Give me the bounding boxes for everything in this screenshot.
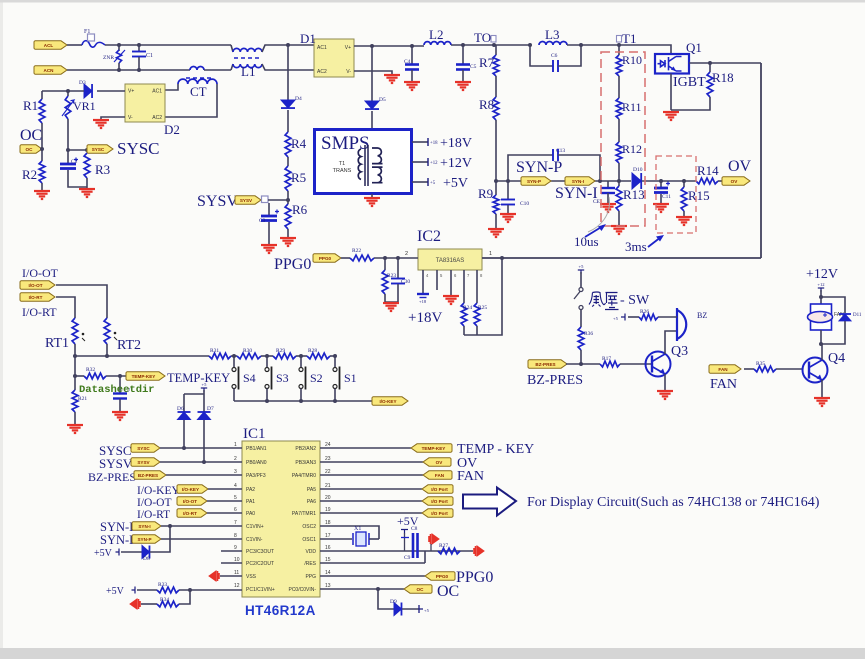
svg-text:R11: R11 [622, 100, 642, 114]
svg-text:24: 24 [325, 442, 331, 448]
wire Q4 emitter [821, 380, 823, 397]
wire CE upper lead [607, 181, 609, 188]
wire L1 top to D1 AC1 [262, 45, 315, 52]
svg-text:R31: R31 [210, 348, 219, 354]
transformer CT secondary winding [178, 79, 217, 84]
wire down to D9 [378, 589, 394, 609]
capacitor C30 [391, 279, 405, 284]
port FAN mid [709, 365, 741, 373]
wire +5 to R26 [628, 316, 639, 318]
svg-text:SYSV: SYSV [137, 460, 150, 465]
junction TO node [492, 43, 496, 47]
capacitor C3 [261, 210, 279, 221]
svg-text:R4: R4 [291, 136, 307, 151]
left page edge strip [0, 3, 3, 649]
svg-text:PPG0: PPG0 [274, 256, 311, 273]
thermistor RT2 [104, 318, 110, 344]
svg-text:BZ-PRES: BZ-PRES [535, 362, 555, 367]
svg-text:Datasheetdir: Datasheetdir [79, 384, 155, 396]
svg-text:C6: C6 [551, 53, 558, 59]
svg-text:IC1: IC1 [243, 426, 266, 442]
svg-text:SYN-I: SYN-I [555, 185, 598, 202]
wire SYSC node row [68, 149, 88, 151]
svg-text:I/O Port: I/O Port [431, 511, 448, 516]
wire R30 to R29 [261, 355, 273, 357]
bottom page edge strip [0, 648, 865, 659]
fan motor M1 [808, 304, 833, 330]
crystal X1 [353, 532, 369, 546]
wire R1 upper lead [41, 91, 43, 99]
junction D9 branch [376, 587, 380, 591]
svg-text:R34: R34 [160, 597, 169, 603]
junction D11 bottom [819, 342, 823, 346]
svg-text:PA6: PA6 [307, 499, 316, 505]
bridge rectifier D2 [125, 84, 165, 122]
svg-text:D8: D8 [143, 556, 150, 562]
svg-text:+18: +18 [430, 141, 438, 146]
wire D9 to +5 tick [402, 608, 419, 610]
switch S3 [265, 367, 272, 390]
leader curve 10us [588, 197, 609, 232]
wire key S2 top [300, 356, 302, 367]
buzzer BZ [677, 308, 686, 341]
wire R25 bottom lead [476, 326, 478, 335]
inductor L1 bottom winding [233, 64, 262, 68]
ground R21 [67, 425, 83, 433]
junction R18 top [708, 61, 712, 65]
resistor R5 [285, 166, 291, 191]
svg-text:+18: +18 [419, 299, 427, 304]
wire pin20 to IO port tag [320, 500, 422, 502]
svg-text:/RES: /RES [304, 561, 316, 567]
wire D8 to SYN-I [150, 526, 170, 552]
svg-text:FAN: FAN [435, 473, 445, 478]
capacitor C10 [501, 200, 515, 205]
svg-text:RT1: RT1 [45, 336, 69, 351]
wire arrow stub VDD [430, 544, 432, 551]
ground R13 [611, 226, 627, 234]
wire feedback to pin1 node [464, 258, 502, 335]
node marker SYSV [262, 196, 269, 203]
svg-text:R5: R5 [291, 170, 306, 185]
resistor R22 [350, 255, 374, 261]
port TEMP-KEY left-mid [126, 372, 165, 380]
wire C10 lower lead [507, 205, 509, 213]
junction D11 top [819, 295, 823, 299]
svg-text:SYSV: SYSV [240, 198, 253, 203]
svg-text:TEMP-KEY: TEMP-KEY [132, 374, 156, 379]
svg-text:C10: C10 [520, 201, 529, 207]
svg-text:TA8316AS: TA8316AS [436, 258, 465, 264]
svg-text:I/O-RT: I/O-RT [29, 295, 43, 300]
wire Q3 emitter [664, 374, 666, 390]
diode D10 [632, 173, 641, 189]
junction C11 branch [659, 179, 663, 183]
port TEMP-KEY right [411, 444, 452, 452]
svg-text:R21: R21 [78, 396, 87, 402]
svg-text:4: 4 [234, 483, 237, 489]
power arrow VSS [209, 571, 219, 581]
wire ACN rail to CT [67, 69, 190, 71]
port I/O Port b [422, 497, 453, 505]
svg-text:SYN-P: SYN-P [516, 159, 562, 176]
svg-text:21: 21 [325, 483, 331, 489]
wire PPG0 tag to R22 [341, 257, 350, 259]
wire pin9 stub [221, 550, 242, 552]
wire C3 upper lead [268, 203, 270, 215]
svg-text:14: 14 [325, 570, 331, 576]
port I/O-RT left [20, 293, 55, 301]
wire key ladder rail left [75, 355, 209, 357]
junction TEMP-KEY row [73, 374, 77, 378]
port SYN-P IC1 [132, 535, 161, 543]
wire R7 to R8 [495, 76, 497, 97]
power arrow VDD [429, 534, 439, 544]
resistor R30 [237, 353, 261, 359]
junction C1 top rail [137, 43, 141, 47]
wire SYSV to pin2 [160, 461, 242, 463]
switch SW pressure [574, 288, 583, 310]
wire SMPS +5V output [412, 181, 428, 183]
wire R35 to Q4 base [776, 368, 803, 370]
thermistor RT1 mark [82, 333, 85, 336]
wire R32 to TEMP-KEY tag [106, 375, 127, 377]
IC IC2 TA8316AS [418, 249, 482, 270]
resistor R21 [72, 390, 78, 412]
resistor R9 [493, 195, 499, 214]
inductor L3 [539, 42, 567, 46]
svg-text:+5: +5 [579, 264, 585, 269]
svg-text:I/O-RT: I/O-RT [137, 509, 170, 521]
wire T1 to Q1 collector [619, 45, 671, 54]
port PPG0 right [425, 572, 455, 580]
resistor R13 [616, 186, 622, 211]
resistor R28 [307, 353, 330, 359]
svg-text:PA0: PA0 [246, 511, 255, 517]
ground Q1 emitter [663, 112, 679, 120]
junction R12 R13 D10 [617, 179, 621, 183]
ground C7 [112, 412, 128, 420]
port SYN-I mid [565, 177, 595, 185]
svg-text:SYN-I: SYN-I [138, 524, 150, 529]
transistor Q4 [803, 358, 828, 383]
wire I/O-OT to pin5 [207, 500, 242, 502]
wire C30 lower lead [397, 284, 399, 302]
junction C4 branch [410, 44, 414, 48]
port SYN-P mid [521, 177, 551, 185]
svg-text:Q1: Q1 [686, 40, 702, 55]
diode D4 [281, 100, 295, 108]
svg-text:BZ-PRES: BZ-PRES [88, 470, 136, 484]
transformer T1 secondary windings [372, 148, 383, 183]
svg-text:V+: V+ [345, 45, 351, 51]
resistor R18 [707, 72, 713, 97]
wire SMPS +12V output [412, 161, 428, 163]
svg-text:+5V: +5V [443, 176, 468, 191]
svg-text:C30: C30 [401, 279, 410, 285]
wire Q3 collector to buzzer [665, 331, 677, 354]
svg-text:R10: R10 [622, 53, 642, 67]
wire VR1 to SYSC node [67, 119, 69, 150]
ground R15 [676, 217, 692, 225]
wire R15 lower lead [683, 211, 685, 216]
node marker TO [491, 36, 496, 43]
svg-text:R1: R1 [23, 98, 38, 113]
diode D11 [839, 314, 851, 321]
junction D8 clamp [168, 524, 172, 528]
svg-text:I/O-KEY: I/O-KEY [182, 487, 199, 492]
svg-text:I/O-KEY: I/O-KEY [137, 485, 180, 497]
wire R1 to R2 [41, 123, 43, 161]
svg-text:R27: R27 [439, 543, 448, 549]
svg-text:T1: T1 [339, 161, 345, 167]
svg-text:X1: X1 [354, 526, 361, 532]
wire I/O-RT to RT1 [56, 297, 75, 318]
svg-text:D5: D5 [379, 97, 386, 103]
wire CT secondary to D2 AC1 [165, 84, 178, 90]
svg-text:11: 11 [234, 570, 239, 576]
svg-text:D10: D10 [633, 167, 643, 173]
wire SMPS +18V output [412, 141, 428, 143]
tick +5 output [427, 178, 429, 186]
tick +5 VDD [401, 530, 408, 534]
wire C2 bottom to R3 bottom [68, 170, 87, 187]
svg-text:I/O-OT: I/O-OT [137, 497, 172, 509]
ground Q3 [657, 391, 673, 399]
tick +5V D8 [116, 549, 120, 556]
svg-text:R26: R26 [640, 309, 649, 315]
wire R31 to R30 [231, 355, 237, 357]
port I/O-OT IC1 [177, 497, 207, 505]
inductor L2 [424, 42, 451, 45]
svg-text:R13: R13 [623, 187, 645, 202]
power arrow pulldown [130, 599, 140, 609]
svg-text:C13: C13 [556, 148, 565, 154]
resistor R11 [616, 98, 622, 119]
wire C10 upper lead [507, 181, 509, 199]
svg-text:I/O Port: I/O Port [431, 499, 448, 504]
port ACN [34, 66, 67, 74]
wire R23 upper lead [384, 258, 386, 270]
svg-text:R3: R3 [95, 162, 110, 177]
wire motor bottom [820, 330, 822, 344]
wire C5 upper lead [462, 45, 464, 64]
wire RES row [320, 562, 425, 564]
svg-text:VSS: VSS [246, 574, 257, 580]
tick +12 output [427, 158, 429, 166]
svg-text:PB3/AN3: PB3/AN3 [295, 460, 316, 466]
svg-text:5: 5 [234, 495, 237, 501]
wire R12 to SYN node [618, 163, 620, 181]
wire R2 lower lead [41, 183, 43, 191]
svg-text:9: 9 [234, 545, 237, 551]
wire D3 to D2 V+ [97, 90, 125, 92]
wire pin21 to IO port tag [320, 488, 422, 490]
resistor R26 [639, 314, 658, 320]
wire R10 to R11 [618, 76, 620, 98]
tick +5 buzzer [621, 314, 625, 321]
svg-text:D1: D1 [300, 31, 316, 46]
wire ACL to fuse F1 [67, 44, 82, 46]
svg-text:S4: S4 [243, 371, 256, 385]
resistor R3 [84, 153, 90, 178]
port ACL [34, 41, 67, 49]
wire SYN row [496, 180, 631, 182]
wire pin23 to OV tag [320, 461, 423, 463]
svg-text:C11: C11 [662, 194, 671, 200]
resistor R2 [39, 161, 45, 183]
wire +5V to D8 [121, 551, 142, 553]
wire switch to R36 [580, 310, 582, 328]
svg-text:TEMP-KEY: TEMP-KEY [422, 446, 446, 451]
svg-text:R15: R15 [688, 188, 710, 203]
wire BZ-PRES to R17 [566, 363, 600, 365]
svg-text:PA3/PF3: PA3/PF3 [246, 473, 266, 479]
svg-text:2: 2 [234, 456, 237, 462]
wire +5 down to VDD [404, 533, 406, 551]
wire pin24 to TEMP-KEY tag [320, 447, 411, 449]
svg-text:+12V: +12V [440, 156, 472, 171]
wire key S3 top [266, 356, 268, 367]
wire C1 top [138, 45, 140, 51]
svg-text:R29: R29 [276, 348, 285, 354]
port FAN right [423, 471, 452, 479]
svg-text:R18: R18 [712, 70, 734, 85]
svg-text:SYN-P: SYN-P [137, 537, 151, 542]
ground D2 V- [93, 120, 109, 128]
wire R18 bottom to emitter [671, 97, 710, 110]
ground R6 [280, 238, 296, 246]
svg-text:SYN-P: SYN-P [527, 179, 541, 184]
wire C30 upper lead [397, 258, 399, 278]
junction T1 node [617, 43, 621, 47]
svg-text:I/O-OT: I/O-OT [22, 266, 59, 280]
wire key S3 bottom [266, 389, 268, 402]
svg-text:C4: C4 [404, 59, 411, 65]
diode D5 [365, 101, 379, 109]
svg-text:+5: +5 [430, 181, 436, 186]
wire TO node to R7 [495, 45, 497, 55]
port BZ-PRES mid [528, 360, 567, 368]
wire D5 to SMPS [371, 111, 373, 129]
wire L3 to T1 node [567, 44, 619, 46]
wire C2 upper lead [67, 150, 69, 163]
svg-text:R6: R6 [292, 202, 308, 217]
wire FAN tag to R35 [744, 368, 754, 370]
transistor Q1 IGBT [655, 54, 689, 74]
svg-text:2: 2 [405, 251, 408, 257]
svg-text:FAN: FAN [718, 367, 728, 372]
ground Q4 [814, 398, 830, 406]
arrow 10us [585, 226, 603, 237]
port SYSV left [235, 196, 261, 204]
wire arrow to R34 [141, 603, 157, 605]
wire OSC2 loop [320, 526, 379, 539]
svg-text:PPG: PPG [305, 574, 316, 580]
resistor R29 [273, 353, 296, 359]
svg-text:SYSC: SYSC [117, 139, 160, 158]
svg-text:VR1: VR1 [73, 99, 96, 113]
port BZ-PRES IC1 [134, 471, 166, 479]
transformer T1 core [365, 145, 368, 186]
svg-text:R22: R22 [352, 248, 361, 254]
SMPS module box [315, 130, 412, 194]
power arrow R27 [474, 546, 484, 556]
wire R3 lower lead [86, 178, 88, 188]
wire junction to D4 [287, 45, 289, 100]
svg-text:PA2: PA2 [246, 487, 255, 493]
wire IC2 pin stub d [463, 270, 465, 303]
svg-text:PA5: PA5 [307, 487, 316, 493]
transistor Q3 [646, 352, 671, 377]
tick +12 fan [818, 288, 824, 292]
junction R9 top [494, 179, 498, 183]
svg-text:PC0/C0VIN-: PC0/C0VIN- [288, 587, 316, 593]
top page edge strip [0, 0, 865, 3]
svg-text:6: 6 [234, 507, 237, 513]
wire Q4 collector [821, 344, 823, 360]
wire key S4 bottom [233, 389, 235, 402]
junction pin1 node [500, 256, 504, 260]
wire key S2 bottom [300, 389, 302, 402]
resistor R34 [157, 601, 179, 607]
wire R4 to R5 [287, 157, 289, 166]
capacitor C13 [553, 149, 558, 161]
svg-text:AC2: AC2 [317, 69, 327, 75]
svg-text:C9: C9 [404, 555, 411, 561]
svg-text:D9: D9 [390, 599, 397, 605]
svg-text:R9: R9 [478, 186, 493, 201]
svg-text:R30: R30 [243, 348, 252, 354]
ground C4 [404, 82, 420, 90]
resistor R6 [285, 204, 291, 229]
wire pin11 stub [220, 575, 242, 577]
svg-text:ACL: ACL [44, 43, 54, 48]
wire R1 top to D3 [42, 90, 84, 92]
svg-text:23: 23 [325, 456, 331, 462]
svg-text:PC1/C1VIN+: PC1/C1VIN+ [246, 587, 275, 593]
svg-text:3: 3 [234, 469, 237, 475]
svg-text:SYN-I: SYN-I [100, 520, 133, 534]
svg-text:OV: OV [731, 179, 739, 184]
wire R9 lower lead [495, 214, 497, 228]
wire CE lower lead [607, 193, 609, 203]
svg-text:TO: TO [474, 30, 491, 45]
svg-text:D7: D7 [207, 406, 214, 412]
svg-text:8: 8 [234, 533, 237, 539]
wire T1 to R10 [618, 45, 620, 55]
svg-text:ZNR: ZNR [103, 55, 114, 61]
resistor R1 [39, 99, 45, 123]
wire +5V to R33 [137, 589, 157, 591]
tick +5 clamp [201, 388, 207, 392]
capacitor C1 [132, 52, 146, 57]
svg-text:V-: V- [128, 115, 133, 121]
wire key S1 top [334, 356, 336, 367]
wire RT1 lower lead [74, 344, 76, 356]
svg-text:PB1/AN1: PB1/AN1 [246, 446, 267, 452]
resistor R7 [493, 55, 499, 76]
svg-text:3ms: 3ms [625, 239, 647, 254]
wire D6 upper lead [183, 394, 185, 412]
capacitor C2 [60, 158, 78, 169]
port PPG0 left [313, 254, 341, 262]
svg-text:+12: +12 [430, 161, 438, 166]
svg-text:+5V: +5V [94, 548, 113, 559]
resistor R25 [474, 303, 480, 326]
port SYN-I IC1 [132, 522, 161, 530]
wire R9 upper lead [495, 181, 497, 195]
